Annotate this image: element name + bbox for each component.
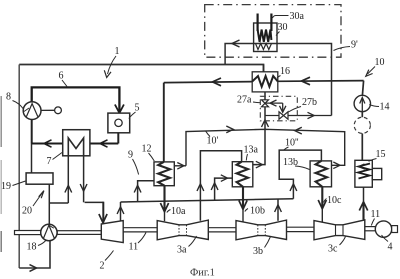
turbine 3b — [236, 220, 287, 240]
header A (reheat collect line) — [174, 165, 186, 167]
shaft segments — [123, 227, 375, 232]
pump 8 side circle — [41, 109, 55, 111]
turbine 2 — [101, 221, 123, 243]
valve 27a — [262, 100, 269, 107]
wire: turbine 2 inlet — [102, 202, 104, 223]
wire 10b: 13a to turbine 3b — [242, 187, 244, 209]
valve column from 16 down to 13a right — [253, 92, 265, 164]
valve 27b outlet line — [265, 115, 279, 117]
wire: 3b exhaust stub — [277, 199, 279, 221]
svg-text:9: 9 — [128, 150, 133, 161]
svg-text:7: 7 — [47, 156, 52, 167]
valve 27b — [279, 112, 288, 119]
shaft left stub — [15, 231, 41, 235]
heat exchanger 16 — [252, 72, 278, 92]
svg-text:30a: 30a — [290, 11, 305, 22]
wire: box5 down — [117, 133, 119, 144]
outer circuit pipe — [19, 65, 263, 269]
svg-text:10'': 10'' — [285, 138, 299, 149]
svg-text:4: 4 — [388, 242, 393, 253]
thick loop 6 top — [32, 87, 120, 112]
right column: corner to pump 14 and down to 15 — [362, 81, 363, 161]
wire: 13a left inlet riser — [215, 178, 233, 200]
wire: top line from valve riser to heater 30 and down to outer pipe — [225, 44, 331, 116]
dash-dot valve enclosure 27 — [260, 96, 297, 121]
svg-text:3a: 3a — [177, 245, 187, 256]
exchanger 13b — [310, 161, 331, 187]
arrow right into valve column from 13a — [256, 161, 263, 168]
svg-text:11: 11 — [371, 209, 381, 220]
wire: pump 8 down to tee — [31, 120, 33, 144]
heater 30 element zigzag — [258, 30, 272, 43]
thick condensate lines at y143 — [32, 143, 119, 145]
svg-text:12: 12 — [142, 144, 152, 155]
exchanger 12 — [154, 162, 174, 186]
wire: 16 top stub — [263, 65, 265, 72]
svg-text:15: 15 — [376, 149, 386, 160]
wire 20: tank to pump 18 — [48, 184, 50, 224]
svg-text:6: 6 — [59, 71, 64, 82]
svg-text:14: 14 — [380, 102, 390, 113]
svg-text:Фиг.1: Фиг.1 — [190, 268, 215, 279]
generator 4 — [375, 221, 391, 237]
dash-dot enclosure 9' — [205, 5, 341, 58]
wire 10c: 13b to turbine 3c — [321, 187, 323, 209]
svg-text:10a: 10a — [171, 206, 186, 217]
heat exchanger 7 — [63, 130, 90, 156]
tank 19 — [26, 173, 53, 184]
wire 9: riser to exchanger 12 — [138, 181, 154, 202]
box 5 — [108, 113, 130, 133]
svg-text:8: 8 — [6, 92, 11, 103]
svg-text:18: 18 — [27, 242, 37, 253]
wire 10a: exchanger 12 to turbine 3a — [163, 186, 165, 212]
wire: exchanger 7 legs down — [67, 156, 69, 203]
svg-text:27b: 27b — [302, 97, 317, 108]
arrow on bottom outer pipe — [30, 265, 37, 272]
scan edge artifacts — [0, 96, 2, 252]
svg-text:10b: 10b — [250, 206, 265, 217]
shaft pump to turbine 2 — [57, 231, 101, 235]
pump 14 — [354, 95, 370, 111]
pump 8 — [23, 102, 41, 120]
svg-text:13a: 13a — [244, 145, 259, 156]
arrows left on main line — [213, 78, 222, 86]
turbine 3c — [314, 220, 365, 240]
svg-text:20: 20 — [22, 206, 32, 217]
wire: 15 to turbine 3c with up arrow — [362, 202, 364, 220]
valve branch V2 — [282, 103, 284, 112]
svg-text:16: 16 — [280, 66, 290, 77]
wire: turbine 2 exhaust stub — [120, 202, 122, 221]
svg-text:3c: 3c — [328, 244, 338, 255]
svg-text:3b: 3b — [253, 246, 263, 257]
turbine 3a — [157, 220, 208, 240]
arrow up on valve column — [262, 120, 269, 127]
arrow left on line into 30 — [232, 40, 240, 47]
wire: tee down to tank 19 — [31, 144, 33, 173]
heater 30 tube zigzag — [256, 44, 272, 50]
main line drop into exchanger 12 — [163, 83, 165, 162]
pump 18 — [41, 224, 57, 240]
exchanger 13a — [232, 162, 253, 187]
heat exchanger 15 — [355, 160, 372, 187]
main steam line 10 horizontal — [164, 81, 364, 83]
svg-text:9': 9' — [351, 40, 358, 51]
svg-text:10': 10' — [207, 136, 219, 147]
svg-text:11: 11 — [129, 242, 139, 253]
svg-text:10: 10 — [375, 57, 385, 68]
svg-text:10c: 10c — [327, 195, 342, 206]
svg-text:19: 19 — [1, 181, 11, 192]
valve branch H1 — [266, 102, 283, 104]
svg-text:2: 2 — [100, 261, 105, 272]
svg-text:27a: 27a — [237, 95, 252, 106]
wire: 3a exhaust riser and top feed to 13a — [200, 151, 241, 221]
heater 30 element pipes — [258, 14, 272, 32]
dashed circle spare pump — [354, 117, 370, 133]
wire: pump column tee to exchanger leg — [49, 202, 68, 204]
heater 30 — [254, 23, 277, 52]
svg-text:1: 1 — [115, 46, 120, 57]
exchanger 16 zigzag — [252, 76, 278, 87]
header D (extraction header) — [85, 201, 104, 203]
wire: header D right riser to 13b top — [279, 150, 321, 199]
